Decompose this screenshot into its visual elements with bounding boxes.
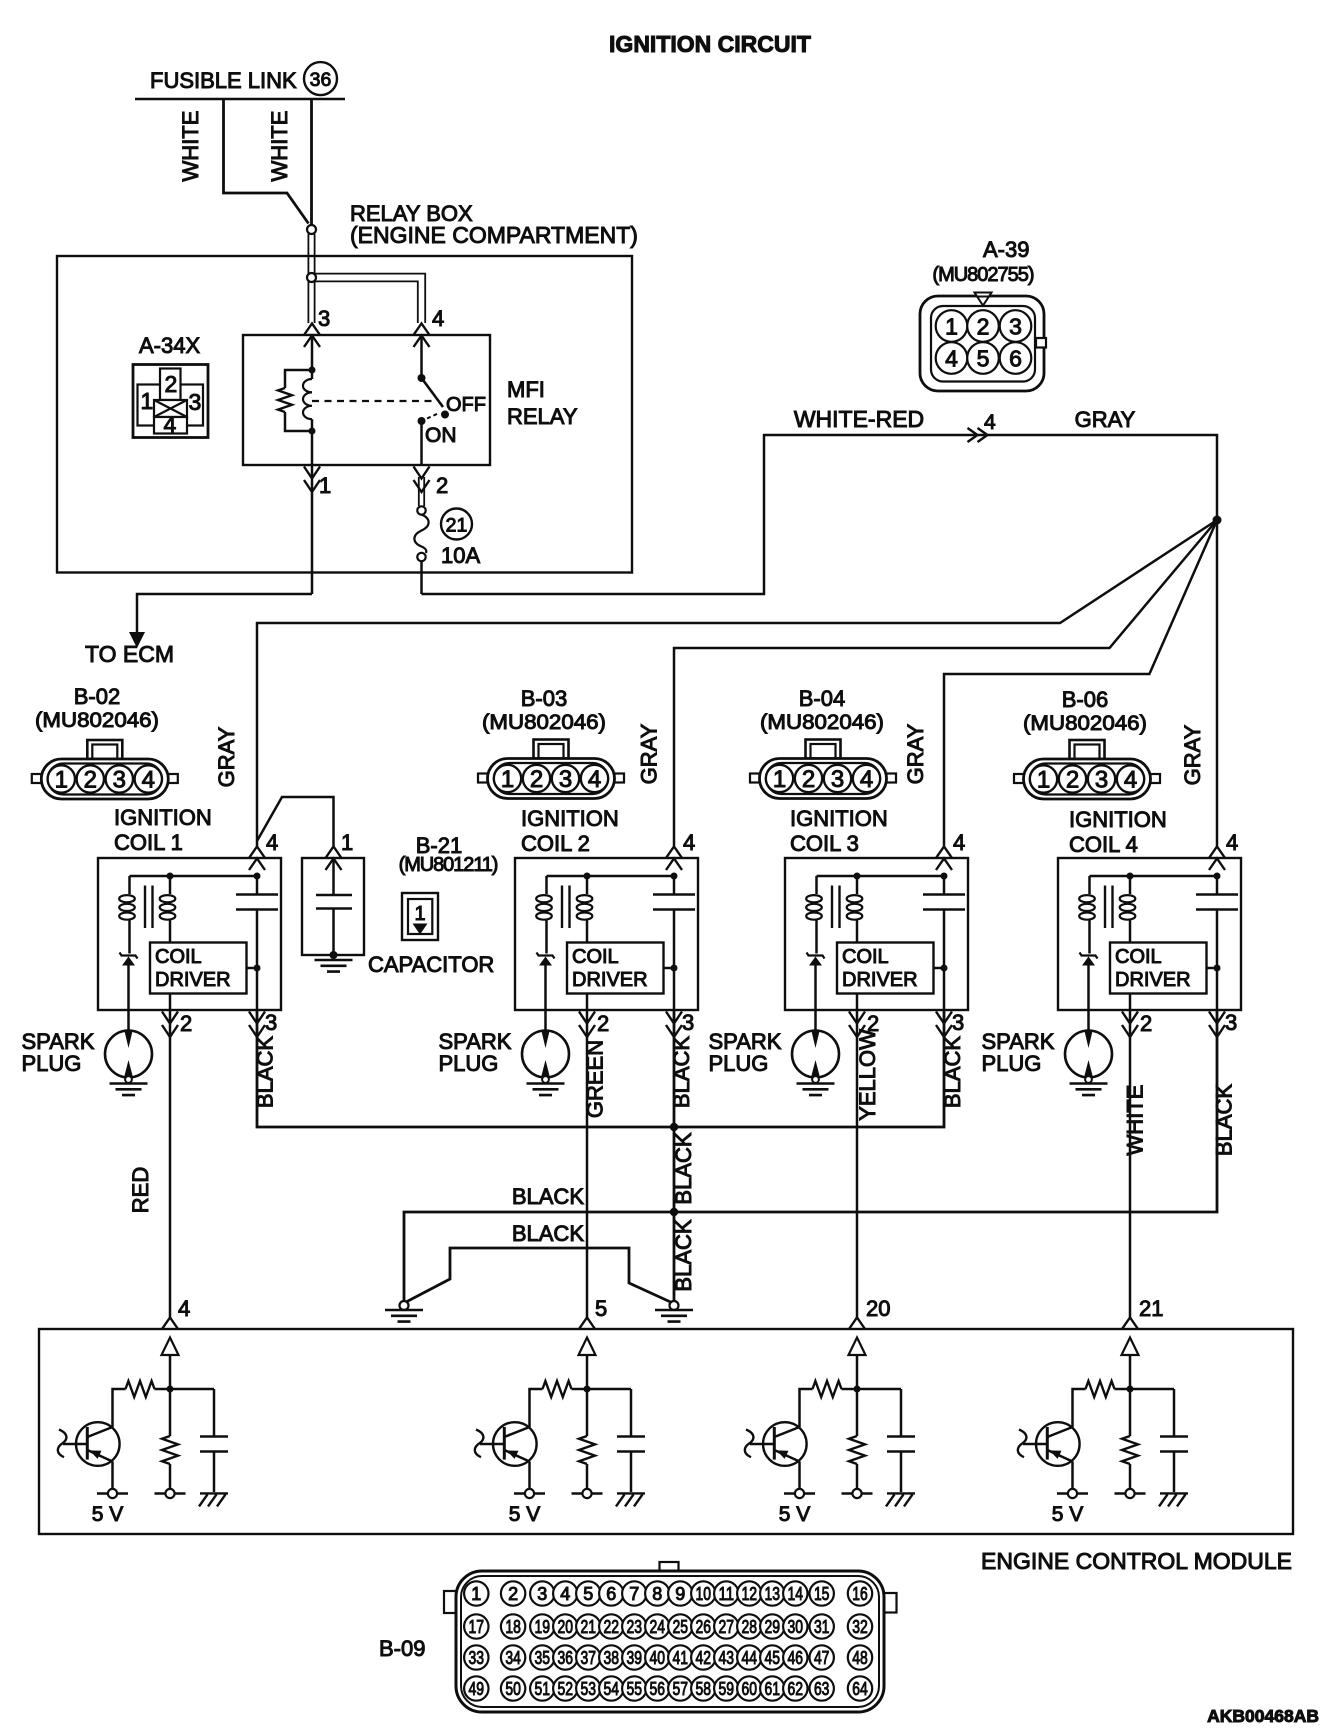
svg-text:14: 14 <box>788 1584 804 1604</box>
svg-text:26: 26 <box>696 1617 712 1637</box>
svg-text:19: 19 <box>535 1617 551 1637</box>
svg-text:42: 42 <box>696 1648 712 1668</box>
splice node (upper) <box>307 225 316 234</box>
svg-text:1: 1 <box>414 903 425 925</box>
svg-text:35: 35 <box>535 1648 551 1668</box>
svg-text:44: 44 <box>742 1648 758 1668</box>
svg-text:COIL 4: COIL 4 <box>1069 832 1138 857</box>
connector B-06 symbol <box>1014 740 1160 799</box>
svg-text:2: 2 <box>508 1584 518 1604</box>
svg-text:COIL 2: COIL 2 <box>521 831 590 856</box>
svg-text:GRAY: GRAY <box>637 723 662 784</box>
relay actuation dashed link <box>312 400 437 402</box>
wire: coil3 pin2 YELLOW to ECM pin 20 <box>856 1010 859 1318</box>
ECM driver circuit 1 <box>58 1318 228 1527</box>
svg-text:RED: RED <box>128 1167 153 1213</box>
svg-text:4: 4 <box>984 411 996 434</box>
label COIL 3 <box>790 806 888 856</box>
capacitor B-21 pin 1 <box>326 847 342 871</box>
wire: white feed (right) <box>310 99 313 224</box>
svg-text:WHITE: WHITE <box>1123 1085 1148 1156</box>
svg-text:BLACK: BLACK <box>671 1132 696 1204</box>
engine control module outline <box>39 1329 1293 1534</box>
svg-text:A-34X: A-34X <box>139 333 200 358</box>
svg-text:2: 2 <box>436 473 448 498</box>
capacitor B-21 element <box>316 858 352 955</box>
svg-text:4: 4 <box>560 1584 570 1604</box>
in-line connector marker 4 <box>968 428 988 442</box>
ground (B-21) <box>315 960 353 972</box>
ECM driver circuit 4 <box>1018 1318 1188 1527</box>
svg-text:(MU802046): (MU802046) <box>1023 712 1147 735</box>
connector A-39 symbol <box>920 293 1046 392</box>
svg-text:52: 52 <box>558 1679 574 1699</box>
svg-text:60: 60 <box>742 1679 758 1699</box>
svg-text:WHITE: WHITE <box>178 111 203 182</box>
wire: fuse output down <box>420 561 423 594</box>
connector B-02 labels <box>35 684 159 732</box>
svg-text:45: 45 <box>765 1648 781 1668</box>
svg-text:43: 43 <box>719 1648 735 1668</box>
connector B-06 labels <box>1023 687 1147 735</box>
svg-text:GRAY: GRAY <box>1075 407 1136 432</box>
svg-text:(MU802046): (MU802046) <box>482 711 606 734</box>
svg-text:COIL 3: COIL 3 <box>790 831 859 856</box>
svg-text:GRAY: GRAY <box>903 723 928 784</box>
svg-text:46: 46 <box>788 1648 804 1668</box>
svg-text:BLACK: BLACK <box>671 1219 696 1291</box>
svg-text:CAPACITOR: CAPACITOR <box>368 952 494 977</box>
label COIL 1 <box>114 805 212 855</box>
double wire branch to relay pin 4 <box>315 274 425 323</box>
svg-text:58: 58 <box>696 1679 712 1699</box>
capacitor B-21 housing <box>302 858 364 955</box>
svg-text:A-39: A-39 <box>983 237 1029 262</box>
wire: coil2 black drop to ground <box>673 1010 676 1301</box>
svg-text:4: 4 <box>164 412 177 438</box>
svg-text:4: 4 <box>178 1296 190 1321</box>
connector A-39 labels <box>932 237 1034 286</box>
connector A-34X symbol <box>133 365 208 438</box>
relay box (engine compartment) outline <box>57 256 632 573</box>
svg-text:B-06: B-06 <box>1062 687 1108 712</box>
ignition coil 4 block <box>982 830 1242 1095</box>
svg-text:30: 30 <box>788 1617 804 1637</box>
relay coil parallel resistor <box>285 370 312 388</box>
svg-text:34: 34 <box>505 1648 521 1668</box>
svg-text:RELAY: RELAY <box>507 404 578 429</box>
wire: pin3 to relay coil <box>311 335 314 370</box>
svg-text:36: 36 <box>558 1648 574 1668</box>
svg-text:WHITE: WHITE <box>267 111 292 182</box>
svg-text:COIL 1: COIL 1 <box>114 830 183 855</box>
svg-text:20: 20 <box>558 1617 574 1637</box>
svg-text:15: 15 <box>814 1584 830 1604</box>
wire: black bus (coils 1-3) <box>257 1010 944 1127</box>
svg-text:7: 7 <box>629 1584 639 1604</box>
wire: gray branch to coil 2 <box>674 520 1217 846</box>
wire: relay coil to pin 1 <box>311 431 314 465</box>
svg-text:23: 23 <box>627 1617 643 1637</box>
ground 1 <box>385 1301 423 1322</box>
svg-text:16: 16 <box>852 1584 868 1604</box>
MFI relay label <box>507 377 578 429</box>
svg-text:61: 61 <box>765 1679 781 1699</box>
wire: black bus (coil 4) <box>404 1010 1217 1301</box>
svg-text:59: 59 <box>719 1679 735 1699</box>
svg-text:2: 2 <box>165 371 178 397</box>
svg-text:53: 53 <box>581 1679 597 1699</box>
wire: coil2 pin2 GREEN to ECM pin 5 <box>586 1010 589 1318</box>
wire: gray branch to coil 1 <box>257 520 1217 846</box>
svg-text:63: 63 <box>814 1679 830 1699</box>
relay switch blade <box>422 378 444 407</box>
svg-text:50: 50 <box>505 1679 521 1699</box>
svg-text:ON: ON <box>425 424 457 447</box>
svg-text:5: 5 <box>595 1296 607 1321</box>
svg-text:31: 31 <box>814 1617 830 1637</box>
ignition coil 1 block <box>22 830 282 1095</box>
svg-text:48: 48 <box>852 1648 868 1668</box>
wire: coil1 gray to capacitor B-21 <box>257 797 334 846</box>
svg-text:(MU802046): (MU802046) <box>35 709 159 732</box>
svg-text:1: 1 <box>945 314 958 340</box>
svg-text:TO ECM: TO ECM <box>85 641 174 667</box>
svg-text:BLACK: BLACK <box>512 1184 584 1209</box>
fusible link 36 label <box>150 62 337 95</box>
svg-text:17: 17 <box>469 1617 485 1637</box>
ignition coil 2 block <box>439 830 699 1095</box>
wire: pin4 to switch <box>420 335 423 378</box>
svg-text:8: 8 <box>652 1584 662 1604</box>
OFF contact <box>441 411 449 419</box>
svg-text:51: 51 <box>535 1679 551 1699</box>
svg-text:BLACK: BLACK <box>512 1221 584 1246</box>
svg-text:21: 21 <box>446 515 468 537</box>
connector B-04 labels <box>760 686 884 734</box>
svg-text:ENGINE CONTROL MODULE: ENGINE CONTROL MODULE <box>981 1548 1292 1574</box>
svg-text:13: 13 <box>765 1584 781 1604</box>
ECM driver circuit 2 <box>475 1318 645 1527</box>
splice node (lower) <box>307 273 316 282</box>
svg-text:B-02: B-02 <box>74 684 120 709</box>
wire: gray branch to coil 3 <box>944 520 1217 846</box>
svg-text:GREEN: GREEN <box>583 1040 608 1118</box>
svg-text:IGNITION: IGNITION <box>1069 807 1167 832</box>
fusible link bus bar <box>135 98 345 101</box>
svg-text:IGNITION: IGNITION <box>521 806 619 831</box>
relay coil winding <box>311 370 314 379</box>
splice node (gray trunk) <box>1213 516 1222 525</box>
svg-text:3: 3 <box>537 1584 547 1604</box>
svg-text:28: 28 <box>742 1617 758 1637</box>
wire: fuse output to A-39 pin 4 (WHITE-RED / GRAY) <box>422 435 1218 594</box>
svg-text:21: 21 <box>581 1617 597 1637</box>
svg-text:20: 20 <box>866 1296 890 1321</box>
wire: relay pin1 to ECM feed <box>137 594 312 634</box>
svg-text:47: 47 <box>814 1648 830 1668</box>
svg-text:10: 10 <box>696 1584 712 1604</box>
svg-text:B-03: B-03 <box>521 686 567 711</box>
label COIL 2 <box>521 806 619 856</box>
svg-text:54: 54 <box>604 1679 620 1699</box>
svg-text:49: 49 <box>469 1679 485 1699</box>
svg-text:40: 40 <box>650 1648 666 1668</box>
connector B-02 symbol <box>32 740 178 799</box>
double wire: pin2 to fuse <box>418 477 420 506</box>
svg-text:IGNITION: IGNITION <box>114 805 212 830</box>
svg-text:2: 2 <box>977 314 990 340</box>
label COIL 4 <box>1069 807 1167 857</box>
svg-text:41: 41 <box>673 1648 689 1668</box>
svg-text:YELLOW: YELLOW <box>855 1029 880 1121</box>
svg-text:4: 4 <box>945 346 958 372</box>
svg-text:FUSIBLE LINK: FUSIBLE LINK <box>150 68 297 93</box>
svg-text:11: 11 <box>719 1584 735 1604</box>
svg-text:5: 5 <box>583 1584 593 1604</box>
svg-text:55: 55 <box>627 1679 643 1699</box>
svg-text:32: 32 <box>852 1617 868 1637</box>
relay box label <box>350 201 638 248</box>
ground 2 <box>655 1301 693 1322</box>
svg-text:OFF: OFF <box>446 394 486 416</box>
svg-text:5: 5 <box>977 346 990 372</box>
svg-text:24: 24 <box>650 1617 666 1637</box>
wire: coil4 pin2 WHITE to ECM pin 21 <box>1129 1010 1132 1318</box>
svg-text:B-04: B-04 <box>799 686 845 711</box>
double wire to relay pin 3 <box>307 234 309 323</box>
wire: ON contact to pin 2 <box>420 421 423 465</box>
svg-text:36: 36 <box>310 69 332 91</box>
relay pin 4 <box>414 324 430 348</box>
MFI relay outline <box>243 335 490 465</box>
svg-text:1: 1 <box>141 388 154 414</box>
svg-text:29: 29 <box>765 1617 781 1637</box>
connector B-21 symbol <box>402 893 438 940</box>
svg-text:18: 18 <box>505 1617 521 1637</box>
ECM driver circuit 3 <box>745 1318 915 1527</box>
svg-text:21: 21 <box>1139 1296 1163 1321</box>
svg-text:12: 12 <box>742 1584 758 1604</box>
connector B-21 labels <box>399 833 498 876</box>
svg-text:IGNITION CIRCUIT: IGNITION CIRCUIT <box>609 31 811 57</box>
arrow to ECM <box>129 632 145 648</box>
svg-text:22: 22 <box>604 1617 620 1637</box>
relay pin 1 <box>304 467 320 493</box>
svg-text:10A: 10A <box>441 543 480 568</box>
svg-text:(MU802755): (MU802755) <box>932 264 1034 286</box>
svg-text:39: 39 <box>627 1648 643 1668</box>
svg-text:3: 3 <box>189 389 202 415</box>
wire: relay pin1 down <box>311 465 314 594</box>
svg-text:56: 56 <box>650 1679 666 1699</box>
svg-text:WHITE-RED: WHITE-RED <box>794 406 924 432</box>
svg-text:3: 3 <box>1009 314 1022 340</box>
ground node (B-21) <box>330 951 338 959</box>
relay pin 3 <box>304 324 320 348</box>
svg-text:GRAY: GRAY <box>1180 724 1205 785</box>
svg-text:AKB00468AB: AKB00468AB <box>1207 1706 1319 1726</box>
svg-text:57: 57 <box>673 1679 689 1699</box>
wire: gray trunk to coil 4 <box>1216 520 1219 846</box>
svg-text:6: 6 <box>606 1584 616 1604</box>
svg-text:IGNITION: IGNITION <box>790 806 888 831</box>
connector B-03 symbol <box>478 740 624 799</box>
svg-text:6: 6 <box>1009 346 1022 372</box>
connector B-09 <box>444 1562 897 1712</box>
svg-text:64: 64 <box>852 1679 868 1699</box>
svg-text:1: 1 <box>319 473 331 498</box>
svg-text:(ENGINE COMPARTMENT): (ENGINE COMPARTMENT) <box>350 222 638 248</box>
svg-text:1: 1 <box>341 830 353 855</box>
svg-text:27: 27 <box>719 1617 735 1637</box>
svg-text:B-09: B-09 <box>379 1636 425 1661</box>
ON contact <box>418 417 426 425</box>
svg-text:3: 3 <box>318 306 330 331</box>
relay pin 2 <box>414 467 430 493</box>
svg-text:9: 9 <box>675 1584 685 1604</box>
svg-text:62: 62 <box>788 1679 804 1699</box>
svg-text:GRAY: GRAY <box>214 726 239 787</box>
fuse 21 (10A) <box>414 506 480 568</box>
wire: coil1 pin2 RED to ECM pin 4 <box>169 1010 172 1318</box>
ignition coil 3 block <box>709 830 969 1095</box>
svg-text:(MU801211): (MU801211) <box>399 854 498 876</box>
connector B-04 symbol <box>750 740 896 799</box>
connector B-03 labels <box>482 686 606 734</box>
svg-text:25: 25 <box>673 1617 689 1637</box>
wire: white feed (left) <box>224 99 309 224</box>
wire: ground tie bus <box>407 1248 671 1302</box>
svg-text:33: 33 <box>469 1648 485 1668</box>
svg-text:(MU802046): (MU802046) <box>760 711 884 734</box>
svg-text:4: 4 <box>432 306 444 331</box>
svg-text:37: 37 <box>581 1648 597 1668</box>
svg-text:BLACK: BLACK <box>1212 1084 1237 1156</box>
svg-text:1: 1 <box>471 1584 481 1604</box>
svg-text:38: 38 <box>604 1648 620 1668</box>
svg-text:MFI: MFI <box>507 377 545 402</box>
